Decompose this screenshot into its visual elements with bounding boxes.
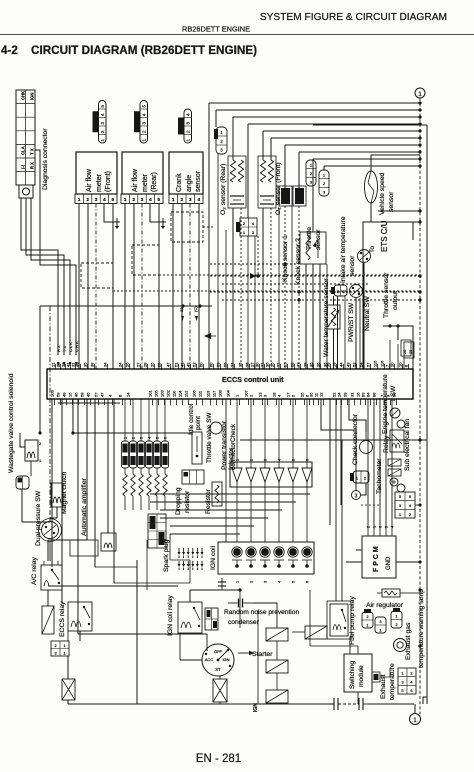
wire ign sw left <box>180 659 202 661</box>
pin arrow RX <box>57 362 60 367</box>
wire FPCM left pin <box>356 549 362 551</box>
wire dual pressure up <box>49 518 51 522</box>
wire mid bus 6 <box>170 533 240 535</box>
svg-text:106: 106 <box>192 390 197 397</box>
O2 front sensor resistor <box>268 160 273 182</box>
svg-text:105: 105 <box>154 390 159 397</box>
engine temp SW circle 2 <box>397 420 405 428</box>
svg-text:R X: R X <box>56 345 61 352</box>
svg-text:2: 2 <box>100 130 105 133</box>
svg-text:35: 35 <box>309 392 314 397</box>
connector above air flow meter (rear) <box>140 101 148 144</box>
wire right outer vertical <box>426 125 428 704</box>
wire corner drop x263 <box>262 131 264 160</box>
svg-text:ECCS control unit: ECCS control unit <box>222 375 284 384</box>
svg-text:3: 3 <box>323 190 326 195</box>
svg-text:54: 54 <box>359 362 364 367</box>
svg-text:IGN coil relay: IGN coil relay <box>167 595 174 636</box>
svg-text:1: 1 <box>39 458 42 463</box>
wire mid right long <box>240 439 427 441</box>
wire AFM rear pin3 shielded <box>141 204 143 370</box>
wire crank pin1 <box>172 204 174 370</box>
svg-text:3: 3 <box>100 122 105 125</box>
wire eccs-left drop 6 <box>94 399 96 567</box>
svg-text:1: 1 <box>310 163 313 168</box>
svg-text:45: 45 <box>86 392 91 397</box>
fusible link 3 <box>266 690 288 703</box>
svg-text:Spark plug: Spark plug <box>163 539 170 572</box>
svg-text:44: 44 <box>339 362 344 367</box>
wire sens v3 <box>247 236 249 369</box>
wire node1 dashed vertical <box>419 98 421 714</box>
svg-text:3: 3 <box>379 619 382 624</box>
svg-text:111: 111 <box>198 390 203 397</box>
svg-text:60: 60 <box>209 362 214 367</box>
svg-text:1: 1 <box>186 139 191 142</box>
wire bottom v1 <box>136 560 138 704</box>
wire AFM front pin4 to ground <box>104 204 117 223</box>
svg-text:6: 6 <box>409 494 412 499</box>
svg-text:Diagnosis connector: Diagnosis connector <box>42 128 49 190</box>
svg-text:110: 110 <box>172 390 177 397</box>
wire bottom bus right <box>368 703 414 705</box>
wire right h 505 <box>415 504 420 506</box>
wire top bus 5 <box>263 130 420 132</box>
svg-text:1: 1 <box>63 651 66 656</box>
check connector circle <box>360 441 373 454</box>
header rule <box>0 34 474 36</box>
svg-text:meter: meter <box>96 173 103 192</box>
wire mid drop b <box>169 534 171 560</box>
svg-text:26: 26 <box>316 362 321 367</box>
svg-text:3: 3 <box>141 197 144 202</box>
svg-text:4: 4 <box>142 113 147 116</box>
O2 front heater resistor <box>260 160 265 182</box>
wire eccs-left drop 3 <box>72 399 74 433</box>
svg-text:Magnet clutch: Magnet clutch <box>61 471 68 514</box>
pin arrow CLK <box>69 362 72 367</box>
air flow meter (rear) pins <box>121 194 163 204</box>
svg-text:1: 1 <box>235 394 240 397</box>
wire bottom v3 <box>239 590 241 628</box>
svg-text:ECCS relay: ECCS relay <box>59 601 66 637</box>
wire starter links <box>276 641 278 660</box>
svg-text:19: 19 <box>409 350 413 354</box>
svg-text:T X: T X <box>62 346 67 352</box>
svg-text:57: 57 <box>94 392 99 397</box>
wire igncoil feed <box>225 399 227 542</box>
wire right mid link <box>397 326 399 340</box>
svg-text:38: 38 <box>90 362 95 367</box>
svg-text:R X: R X <box>30 162 35 169</box>
svg-text:113: 113 <box>206 390 211 397</box>
svg-text:Check: Check <box>230 423 237 442</box>
A/C relay K1 <box>41 565 62 590</box>
svg-text:32: 32 <box>296 362 301 367</box>
svg-text:2: 2 <box>249 394 254 397</box>
svg-text:5: 5 <box>142 105 147 108</box>
wire wastegate dashdot <box>49 306 51 521</box>
idle point circle <box>210 422 222 434</box>
connector 2x2 bottom left <box>51 641 69 656</box>
wire throttle out3 <box>319 264 321 369</box>
wire eccs-left drop 4 <box>77 399 79 634</box>
wire acrelay up <box>47 540 49 561</box>
wastegate solenoid body <box>25 440 38 461</box>
svg-text:3: 3 <box>186 122 191 125</box>
wire top bus 3 <box>233 116 420 118</box>
svg-text:2: 2 <box>366 614 369 619</box>
svg-text:CIRCUIT DIAGRAM (RB26DETT ENGI: CIRCUIT DIAGRAM (RB26DETT ENGINE) <box>31 44 257 57</box>
wire ign coil relay up <box>189 590 191 602</box>
wire corner drop x271 <box>270 138 272 160</box>
svg-text:3: 3 <box>310 180 313 185</box>
knock sensor 1 body <box>281 188 290 204</box>
svg-text:EN - 281: EN - 281 <box>196 753 241 765</box>
wire mid bus 1 <box>150 493 310 495</box>
svg-text:4: 4 <box>108 394 113 397</box>
ignition switch SW1 <box>202 644 234 676</box>
throttle valve sw body <box>192 432 202 464</box>
svg-text:sensor: sensor <box>388 191 395 212</box>
dual pressure switch symbol <box>42 522 59 539</box>
svg-text:55: 55 <box>223 362 228 367</box>
condenser symbol <box>221 578 223 590</box>
svg-text:5: 5 <box>401 688 404 693</box>
svg-text:29: 29 <box>343 392 348 397</box>
O2 rear sensor element resistor <box>238 160 243 182</box>
svg-text:1: 1 <box>63 643 66 648</box>
svg-text:Random noise prevention: Random noise prevention <box>224 609 299 616</box>
IGN coils x6 <box>233 548 241 556</box>
svg-text:18: 18 <box>272 392 277 397</box>
svg-text:101: 101 <box>148 390 153 397</box>
wire main left bus <box>40 305 212 307</box>
svg-text:Crank: Crank <box>176 173 183 192</box>
svg-text:Air regulator: Air regulator <box>366 602 404 609</box>
diagnosis connector tab <box>19 185 33 198</box>
wire AFM rear pin4 to ground <box>150 204 163 223</box>
svg-text:2: 2 <box>343 289 346 294</box>
svg-text:2: 2 <box>410 671 413 676</box>
wire top bus 2 <box>216 109 420 111</box>
svg-text:2: 2 <box>186 130 191 133</box>
svg-text:5: 5 <box>292 459 296 461</box>
svg-text:1: 1 <box>236 581 240 583</box>
svg-text:46: 46 <box>74 392 79 397</box>
svg-text:115: 115 <box>373 360 378 367</box>
svg-text:Throttle sensor: Throttle sensor <box>383 272 390 318</box>
wire bottom h1b <box>48 585 178 587</box>
svg-text:17: 17 <box>286 392 291 397</box>
shield of AFM rear cable <box>132 245 159 275</box>
water temp sensor body <box>327 305 340 329</box>
svg-text:meter: meter <box>142 173 149 192</box>
connector 2x2 below O2 <box>240 218 257 236</box>
svg-text:6: 6 <box>379 526 383 528</box>
svg-text:Air flow: Air flow <box>86 168 93 192</box>
svg-text:RB26DETT ENGINE: RB26DETT ENGINE <box>182 25 250 34</box>
svg-text:C H K: C H K <box>74 341 79 352</box>
svg-text:Dropping: Dropping <box>175 487 182 515</box>
svg-text:25: 25 <box>300 392 305 397</box>
shield of crank sensor cable <box>171 212 203 242</box>
svg-text:3: 3 <box>263 394 268 397</box>
svg-text:Vehicle speed: Vehicle speed <box>379 172 386 215</box>
power transistors x6 <box>232 468 242 482</box>
fusible link 4 <box>305 626 327 639</box>
wire mid drop a <box>189 560 191 583</box>
wire tach link <box>361 483 367 495</box>
wire intake air down <box>337 296 339 369</box>
svg-text:24: 24 <box>118 362 123 367</box>
O2 front cell frame <box>258 156 276 208</box>
wire FPCM gnd <box>396 561 420 563</box>
wire fuse to bus <box>67 700 69 704</box>
svg-text:4: 4 <box>100 113 105 116</box>
wire starter up <box>254 603 277 628</box>
wire vss to bus <box>371 155 420 160</box>
wire neutral down <box>363 263 365 369</box>
air reg connector a <box>362 612 373 628</box>
svg-text:14: 14 <box>126 392 131 397</box>
wire vss out <box>371 221 420 223</box>
wire vss down right <box>378 210 420 212</box>
wire mid bus 2 <box>150 501 296 503</box>
wire top bus 7 <box>285 144 420 146</box>
shield drain wire 3 <box>203 226 214 228</box>
svg-text:43: 43 <box>346 362 351 367</box>
svg-text:3: 3 <box>264 459 268 461</box>
wire right outer corner <box>423 697 427 704</box>
svg-text:47: 47 <box>100 392 105 397</box>
wire AFM rear pin1 <box>124 204 126 370</box>
wire switching module down <box>357 692 359 704</box>
engine temp SW circle <box>390 408 400 418</box>
wire diagnosis CHK <box>35 150 76 355</box>
svg-text:4: 4 <box>103 197 106 202</box>
wire ign fuse to bus <box>219 702 221 704</box>
wire right bus b <box>340 399 342 505</box>
svg-text:114: 114 <box>178 390 183 397</box>
svg-text:3: 3 <box>54 651 57 656</box>
svg-text:35: 35 <box>309 362 314 367</box>
svg-text:1: 1 <box>236 459 240 461</box>
wire crank pin4 <box>198 204 200 370</box>
svg-text:1: 1 <box>243 230 246 235</box>
svg-text:104: 104 <box>226 390 231 397</box>
wire AFM front pin3 shielded <box>95 204 97 370</box>
fuel pump relay K4 <box>330 604 348 636</box>
svg-text:(C): (C) <box>193 306 198 312</box>
svg-text:Exhaust: Exhaust <box>380 674 387 699</box>
svg-text:42: 42 <box>186 362 191 367</box>
wire corner drop x209 <box>208 103 210 369</box>
wire bottom h3 <box>114 582 190 584</box>
ECCS control unit U1 <box>47 369 413 399</box>
svg-text:59: 59 <box>56 392 61 397</box>
wire vehicle speed up <box>370 160 372 171</box>
svg-text:2: 2 <box>250 581 254 583</box>
dropping resistor connector <box>182 470 204 484</box>
starter arrow <box>238 652 249 654</box>
svg-text:3: 3 <box>95 197 98 202</box>
capacitor noise <box>228 602 238 604</box>
svg-text:O₂ sensor (Rear): O₂ sensor (Rear) <box>220 164 227 215</box>
svg-text:4: 4 <box>410 679 413 684</box>
svg-text:4: 4 <box>277 394 282 397</box>
wire top bus 10 <box>324 165 420 167</box>
svg-text:2: 2 <box>250 459 254 461</box>
wire mid 433 <box>73 432 192 434</box>
svg-text:T X: T X <box>30 148 35 155</box>
wire knock1 shielded <box>284 206 286 369</box>
wire wastegate link <box>20 433 25 447</box>
svg-text:2: 2 <box>39 441 42 446</box>
svg-text:1: 1 <box>379 628 382 633</box>
svg-text:2: 2 <box>364 476 367 481</box>
svg-text:2: 2 <box>395 622 398 627</box>
svg-text:3: 3 <box>142 122 147 125</box>
node 1 bottom <box>410 714 421 725</box>
svg-text:27: 27 <box>136 362 141 367</box>
wire wastegate feed <box>39 306 41 433</box>
svg-text:Knock sensor 1: Knock sensor 1 <box>282 235 289 282</box>
svg-text:SYSTEM FIGURE & CIRCUIT DIAGRA: SYSTEM FIGURE & CIRCUIT DIAGRAM <box>260 12 447 23</box>
wire AFM rear pin5 <box>158 204 160 370</box>
wire left bus 403 <box>58 402 120 404</box>
O2 rear heater resistor <box>230 160 235 182</box>
svg-text:1: 1 <box>401 671 404 676</box>
svg-text:Throttle valve SW: Throttle valve SW <box>206 412 213 463</box>
svg-text:47: 47 <box>166 362 171 367</box>
svg-text:2: 2 <box>310 171 313 176</box>
svg-text:1: 1 <box>336 289 339 294</box>
svg-text:sensor: sensor <box>195 170 202 192</box>
capacitor bottom 2 <box>358 698 360 710</box>
node 1 top <box>415 88 425 98</box>
switching module side pin <box>372 672 380 682</box>
svg-text:53: 53 <box>352 362 357 367</box>
svg-text:6: 6 <box>164 437 168 439</box>
wire eccsrelay wires <box>47 590 49 606</box>
svg-text:5: 5 <box>100 105 105 108</box>
svg-text:1: 1 <box>124 437 128 439</box>
svg-text:6: 6 <box>410 688 413 693</box>
wire vehicle speed down <box>370 203 372 222</box>
throttle sensor pot box <box>300 232 326 264</box>
svg-text:15: 15 <box>68 392 73 397</box>
ign coil relay connector <box>205 608 218 630</box>
wastegate connector <box>16 476 29 489</box>
black connector 2x4 <box>148 514 166 548</box>
injector dropping resistors x6 <box>123 474 127 496</box>
wire top bus 9 <box>313 158 420 160</box>
svg-text:PWR/ST SW: PWR/ST SW <box>348 302 355 342</box>
svg-text:CHK: CHK <box>21 91 26 100</box>
connector above air flow meter (front) <box>99 101 107 144</box>
svg-text:3: 3 <box>189 197 192 202</box>
svg-text:58: 58 <box>80 392 85 397</box>
svg-text:112: 112 <box>184 390 189 397</box>
wire throttle output bus <box>383 326 413 369</box>
wire bottom v5 <box>309 590 311 646</box>
wire top bus 1 <box>209 102 420 104</box>
connector above crank angle sensor <box>184 109 192 143</box>
svg-text:4: 4 <box>148 437 152 439</box>
svg-text:(-): (-) <box>21 164 26 169</box>
air reg connector c <box>391 611 402 628</box>
svg-text:107: 107 <box>244 390 249 397</box>
svg-text:module: module <box>358 665 365 687</box>
svg-text:connector: connector <box>230 441 237 470</box>
wire corner drop x216 <box>215 110 217 127</box>
svg-text:6: 6 <box>306 581 310 583</box>
wire eccs-left drop 2 <box>61 399 63 603</box>
power transistor unit box <box>230 462 312 487</box>
shield dotted h2 <box>210 275 420 277</box>
exhaust temp connector 2x3 <box>398 668 416 694</box>
air regulator resistor <box>382 589 400 597</box>
svg-text:1: 1 <box>124 197 127 202</box>
wire ETS right edge <box>412 222 414 240</box>
O2 rear cell frame <box>228 156 246 208</box>
PWR/ST switch symbol <box>350 285 363 298</box>
svg-text:2: 2 <box>142 130 147 133</box>
svg-text:24: 24 <box>337 392 342 397</box>
svg-text:35: 35 <box>83 362 88 367</box>
svg-text:103: 103 <box>160 390 165 397</box>
IGN coil assembly box <box>218 542 314 574</box>
svg-text:39: 39 <box>326 362 331 367</box>
shield dotted arrow <box>250 273 256 279</box>
wire magnet clutch <box>56 507 58 518</box>
svg-text:34: 34 <box>103 362 108 367</box>
wire right h 590 <box>405 592 420 594</box>
svg-text:IGN coil: IGN coil <box>210 545 217 570</box>
throttle sensor connector a <box>306 160 316 186</box>
wire mid bus 4 <box>160 517 268 519</box>
wire water temp up <box>333 296 335 305</box>
shield of AFM front cable <box>81 263 113 288</box>
svg-text:1: 1 <box>366 623 369 628</box>
wire corner drop x324 <box>323 166 325 170</box>
svg-text:8: 8 <box>118 394 123 397</box>
wire crank pin2 <box>181 204 183 370</box>
pin arrow TX <box>63 362 66 367</box>
svg-text:condenser: condenser <box>228 619 260 626</box>
wire fuse drop <box>67 656 69 679</box>
svg-text:5: 5 <box>399 494 402 499</box>
diagnosis connector J1 body <box>16 90 35 185</box>
wire FPCM left pin2 <box>346 561 362 563</box>
wire dual pressure link <box>22 521 50 523</box>
wire bottom v4 <box>257 610 259 704</box>
wire O2 rear out2 <box>240 208 242 369</box>
wire switching module up <box>349 636 351 654</box>
svg-text:Engine temperature: Engine temperature <box>382 374 389 434</box>
wire corner drop x233 <box>232 117 234 160</box>
wire right v10 <box>389 340 391 369</box>
svg-text:Automatic amplifier: Automatic amplifier <box>81 477 88 536</box>
shield drain wire 1 <box>113 290 420 292</box>
wire AFM rear pin2 <box>133 204 135 370</box>
ECCS pin stubs below <box>54 399 56 405</box>
svg-text:57: 57 <box>366 362 371 367</box>
svg-text:3: 3 <box>401 679 404 684</box>
svg-text:25: 25 <box>270 362 275 367</box>
fuse right 2 <box>388 469 401 476</box>
